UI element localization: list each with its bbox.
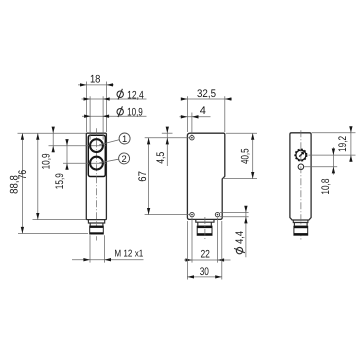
- 4,4 hole top extension line: [220, 211, 249, 213]
- 22 left extension line: [191, 218, 193, 263]
- svg-text:4,4: 4,4: [234, 231, 246, 244]
- top extension line left of view1: [18, 132, 87, 134]
- svg-text:22: 22: [200, 249, 210, 261]
- dimension 40,5 line: [252, 133, 254, 178]
- lens 1 inner circle: [91, 140, 103, 152]
- 22 right extension line: [217, 218, 219, 263]
- svg-text:18: 18: [90, 74, 101, 86]
- nut top band view1: [90, 226, 104, 228]
- dimension 67 line: [148, 138, 150, 215]
- top extension line view3: [312, 132, 356, 134]
- dimension diameter 10,9 text: [117, 106, 123, 117]
- body outline view3: [290, 133, 311, 220]
- dimension 4 line: [180, 116, 211, 118]
- lens2 center extension line: [63, 162, 106, 164]
- svg-text:19,2: 19,2: [337, 136, 349, 152]
- top screw hole view2: [190, 136, 194, 140]
- connector nut view1: [90, 226, 104, 234]
- dimension 15,9 line: [66, 140, 68, 169]
- potentiometer gear ring: [296, 150, 306, 160]
- 18 right extension line: [105, 82, 107, 133]
- svg-text:4,5: 4,5: [155, 152, 167, 164]
- M12 left extension line: [89, 235, 91, 262]
- nut top band view2: [197, 226, 212, 228]
- connector step view1: [88, 220, 104, 223]
- svg-text:M 12 x1: M 12 x1: [114, 249, 143, 260]
- 40,5 top extension line: [226, 132, 257, 134]
- M12 right extension line: [103, 235, 105, 262]
- dimension diameter 4,4 text: [234, 247, 245, 253]
- potentiometer center dot: [300, 154, 302, 156]
- svg-text:15,9: 15,9: [54, 173, 66, 189]
- 67 bottom extension line: [145, 214, 190, 216]
- svg-text:30: 30: [200, 266, 209, 278]
- nut bottom band view3: [294, 233, 308, 235]
- svg-text:10,9: 10,9: [127, 106, 143, 118]
- dimension diameter 12,4 text: [117, 89, 123, 100]
- connector step view3: [293, 220, 308, 223]
- dimension diameter 10,9 line: [82, 115, 147, 117]
- lens1 center extension line: [49, 145, 107, 147]
- connector flange view3: [294, 223, 307, 227]
- lens 1 outer circle: [90, 139, 104, 153]
- svg-text:67: 67: [137, 171, 149, 182]
- dimension 22 line: [184, 259, 231, 261]
- nut top band view3: [294, 226, 308, 228]
- 4,5 top extension line: [162, 132, 173, 134]
- svg-text:10,8: 10,8: [320, 179, 332, 195]
- centerline view3 vertical: [300, 130, 302, 239]
- callout 2 circle: [119, 153, 130, 164]
- svg-text:1: 1: [122, 133, 127, 144]
- 88,8 bottom extension line: [18, 233, 88, 235]
- dimension diameter 12,4 line: [82, 98, 147, 100]
- lens 2 outer circle: [90, 156, 104, 170]
- connector step view2: [196, 219, 214, 222]
- callout 1 leader: [99, 140, 119, 145]
- dimension 30 line: [187, 276, 221, 278]
- hole center extension line: [145, 137, 190, 139]
- connector nut view2: [197, 226, 212, 235]
- dimension diameter 4,4 line: [245, 206, 247, 257]
- nut bottom band view2: [197, 233, 212, 235]
- lens 2 inner circle: [91, 157, 103, 169]
- svg-text:12,4: 12,4: [127, 89, 144, 101]
- svg-text:4: 4: [200, 105, 206, 117]
- svg-text:76: 76: [17, 170, 29, 180]
- connector nut view3: [294, 226, 308, 235]
- right face extension line view2: [224, 96, 226, 132]
- bottom screw hole right view2: [215, 212, 219, 216]
- lens window frame: [88, 135, 105, 176]
- 4,4 hole bottom extension line: [220, 216, 249, 218]
- connector flange view2: [198, 222, 212, 226]
- dimension 76 line: [37, 133, 39, 219]
- dimension 4,5 line: [166, 128, 168, 166]
- connector flange view1: [90, 223, 103, 226]
- svg-text:40,5: 40,5: [240, 149, 252, 164]
- potentiometer slot: [299, 152, 303, 156]
- body outline view1: [86, 133, 106, 219]
- dimension 10,8 line: [332, 147, 334, 174]
- svg-text:2: 2: [121, 153, 126, 164]
- centerline connector view2: [204, 217, 206, 241]
- 30 left extension line: [186, 221, 188, 280]
- dimension 32,5 line: [182, 98, 232, 100]
- LED center extension line: [304, 166, 337, 168]
- 40,5 bottom extension line: [224, 178, 257, 180]
- bottom screw hole left view2: [190, 212, 194, 216]
- potentiometer teeth: [295, 149, 306, 160]
- centerline view1 vertical: [96, 128, 98, 240]
- callout 1 circle: [119, 133, 130, 144]
- 76 bottom extension line: [33, 219, 87, 221]
- pot center extension line: [309, 154, 356, 156]
- dimension 10,9 line: [52, 128, 54, 152]
- 30 right extension line: [221, 221, 223, 280]
- body outline view2: [187, 133, 224, 219]
- dimension 19,2 line: [350, 127, 352, 162]
- svg-text:10,9: 10,9: [40, 153, 52, 169]
- nut bottom band view1: [90, 232, 104, 234]
- lens diameter extension lines: [89, 96, 91, 139]
- front face extension line view2: [186, 96, 188, 132]
- LED indicator: [298, 164, 304, 170]
- svg-text:32,5: 32,5: [197, 88, 216, 100]
- dimension 18 line: [78, 84, 114, 86]
- callout 2 leader: [99, 159, 118, 163]
- dimension 88,8 line: [21, 133, 23, 233]
- 18 left extension line: [86, 82, 88, 133]
- dimension M 12 x1 line: [72, 259, 144, 261]
- hole extension line view2: [191, 113, 193, 135]
